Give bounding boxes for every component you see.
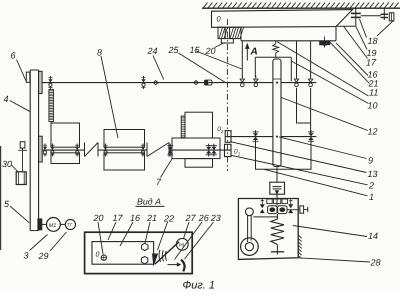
svg-text:16: 16: [130, 213, 140, 223]
svg-text:10: 10: [368, 101, 378, 111]
svg-text:27: 27: [185, 213, 197, 223]
svg-text:4: 4: [4, 94, 9, 104]
svg-text:30: 30: [2, 159, 12, 169]
svg-text:14: 14: [368, 231, 378, 241]
svg-text:7: 7: [156, 177, 162, 187]
svg-text:Фиг. 1: Фиг. 1: [183, 280, 216, 292]
svg-text:18: 18: [368, 36, 378, 46]
svg-text:ТГ: ТГ: [67, 223, 73, 228]
svg-text:15: 15: [190, 45, 201, 55]
svg-text:22: 22: [163, 214, 174, 224]
svg-text:20: 20: [93, 213, 104, 223]
svg-text:А: А: [250, 47, 258, 58]
svg-text:19: 19: [367, 48, 377, 58]
svg-text:29: 29: [38, 251, 49, 261]
svg-text:12: 12: [368, 127, 378, 137]
svg-text:Вид А: Вид А: [137, 197, 161, 207]
svg-text:3: 3: [24, 251, 29, 261]
svg-text:М1: М1: [49, 223, 57, 229]
svg-text:20: 20: [205, 46, 216, 56]
svg-text:26: 26: [198, 213, 209, 223]
svg-text:23: 23: [210, 213, 221, 223]
svg-text:28: 28: [370, 258, 381, 268]
svg-text:2: 2: [220, 129, 224, 134]
svg-text:13: 13: [368, 169, 378, 179]
svg-text:1: 1: [369, 192, 374, 202]
svg-text:21: 21: [146, 213, 157, 223]
svg-text:25: 25: [168, 45, 180, 55]
svg-text:5: 5: [4, 199, 10, 209]
svg-text:17: 17: [366, 58, 377, 68]
svg-text:8: 8: [97, 48, 102, 58]
svg-text:2: 2: [368, 181, 374, 191]
svg-text:0: 0: [96, 252, 100, 259]
svg-text:17: 17: [113, 213, 124, 223]
svg-text:0: 0: [217, 15, 222, 24]
svg-text:11: 11: [369, 88, 378, 98]
svg-text:9: 9: [368, 156, 373, 166]
svg-text:1: 1: [238, 151, 241, 156]
svg-text:24: 24: [147, 46, 158, 56]
svg-text:6: 6: [11, 51, 16, 61]
